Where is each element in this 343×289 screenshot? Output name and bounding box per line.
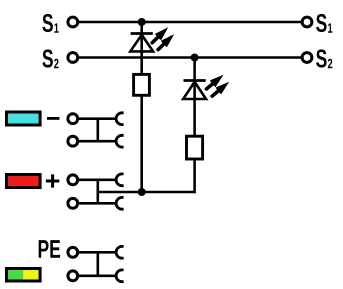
LED D1 triangle [130, 35, 153, 52]
terminal circle S1 left [68, 17, 78, 27]
node junction on S1 rail [138, 18, 146, 26]
wire plus top [78, 179, 116, 182]
resistor R2 [187, 136, 203, 159]
wire minus tie [97, 119, 100, 142]
marker PE (green/yellow) [7, 269, 41, 282]
LED D1 arrows [149, 24, 177, 53]
terminal circle PE bottom [68, 271, 78, 281]
terminal circle minus top [68, 114, 78, 124]
wire plus bus [98, 191, 142, 194]
wire minus bottom [78, 140, 116, 143]
jumper contact PE top [116, 246, 124, 258]
terminal circle plus top [68, 175, 78, 185]
terminal circle S2 right [302, 53, 312, 63]
label PE [39, 240, 60, 258]
node junction on plus bus [138, 188, 146, 196]
marker plus (red) [7, 175, 41, 188]
jumper contact minus bottom [116, 135, 124, 147]
terminal circle S2 left [68, 53, 78, 63]
label S2 right [316, 49, 332, 68]
resistor R1 [134, 74, 150, 95]
wire S2 rail [78, 56, 301, 59]
label S1 left [42, 14, 58, 33]
wire S1 rail [78, 21, 301, 24]
wire plus bottom [78, 202, 116, 205]
wire plus tie [97, 180, 100, 204]
node junction on S2 rail [191, 54, 199, 62]
terminal circle S1 right [302, 17, 312, 27]
LED D2 cathode bar [184, 79, 206, 82]
jumper contact PE bottom [116, 270, 124, 282]
jumper contact minus top [116, 113, 123, 125]
terminal circle PE top [68, 247, 78, 257]
wire PE bottom [78, 274, 116, 277]
LED D2 triangle [183, 82, 206, 99]
wire PE tie [97, 252, 100, 275]
terminal circle minus bottom [68, 136, 78, 146]
jumper contact plus top [116, 174, 124, 186]
LED D2 arrows [204, 71, 232, 99]
wire PE top [78, 251, 116, 254]
wire minus top [78, 117, 116, 120]
marker minus (cyan) [7, 112, 41, 125]
wire branch 2 vertical with elbow to junction [142, 58, 195, 193]
plus sign [46, 174, 59, 187]
minus sign [47, 117, 60, 120]
jumper contact plus bottom [116, 197, 124, 209]
wire branch 1 vertical [140, 22, 143, 192]
label S1 right [316, 14, 332, 33]
LED D1 cathode bar [131, 32, 153, 35]
label S2 left [42, 49, 58, 68]
terminal circle plus bottom [68, 198, 78, 208]
